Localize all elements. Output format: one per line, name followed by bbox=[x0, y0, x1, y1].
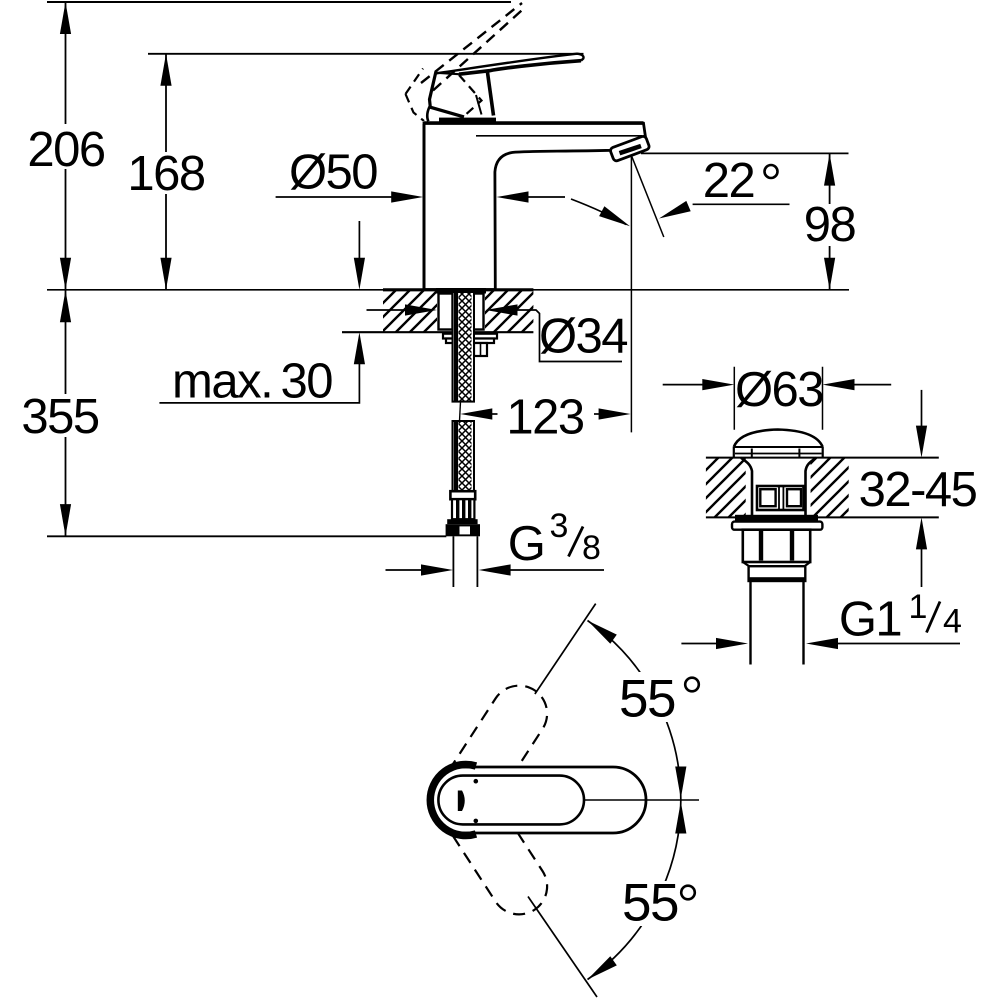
drain flange bbox=[732, 522, 822, 530]
dashed swivel position upper bbox=[423, 675, 558, 841]
dimension 206 line bbox=[65, 2, 67, 290]
top reference line 206 bbox=[47, 1, 511, 3]
aerator cap bbox=[610, 135, 650, 161]
faucet top edge thick bbox=[424, 121, 644, 125]
55deg leader line upper bbox=[535, 604, 596, 694]
handle lever bottom edge bbox=[459, 61, 581, 74]
hose collar ring bbox=[447, 519, 477, 524]
svg-text:3: 3 bbox=[550, 507, 569, 545]
handle base bar bbox=[439, 118, 496, 122]
svg-text:G1: G1 bbox=[839, 593, 901, 647]
drain cap rim bbox=[734, 447, 823, 458]
top view handle crescent bbox=[430, 764, 476, 835]
drain body window bbox=[757, 486, 804, 510]
svg-text:32-45: 32-45 bbox=[859, 463, 977, 517]
spout chamfer line bbox=[476, 135, 642, 137]
drain counter hatch right bbox=[811, 458, 849, 516]
dimension 32-45 bbox=[921, 390, 923, 426]
55deg arc lower bbox=[588, 800, 681, 980]
dimension max.30 bottom arrow and leader bbox=[354, 332, 365, 364]
handle lever top edge bbox=[435, 54, 584, 74]
handle knob top seam bbox=[437, 73, 460, 74]
55deg arc upper bbox=[588, 621, 681, 801]
connection pipe bbox=[453, 536, 477, 587]
svg-text:max. 30: max. 30 bbox=[172, 355, 332, 409]
reference line 168 bbox=[148, 53, 584, 55]
aerator inner stripe bbox=[620, 146, 642, 153]
faucet left edge bbox=[423, 124, 426, 290]
top view centerline bbox=[584, 799, 699, 801]
dimension Ø50 bbox=[276, 196, 392, 198]
svg-text:206: 206 bbox=[27, 123, 105, 177]
dimension Ø63 witness lines bbox=[734, 367, 822, 430]
dimension G3/8 bbox=[386, 569, 423, 571]
svg-text:Ø34: Ø34 bbox=[539, 310, 627, 364]
drain union collar bbox=[749, 566, 806, 581]
svg-text:168: 168 bbox=[127, 147, 205, 201]
dimension Ø34 bbox=[367, 309, 407, 311]
hose ribbed section bbox=[452, 499, 474, 519]
dimension Ø63 bbox=[663, 384, 703, 386]
threaded stud with nut bbox=[474, 343, 487, 356]
counter hatch right of hole bbox=[485, 291, 533, 332]
svg-text:355: 355 bbox=[21, 390, 99, 444]
svg-text:4: 4 bbox=[943, 603, 962, 641]
handle neck right edge bbox=[488, 73, 494, 116]
G3/8 hex nut bbox=[446, 524, 480, 536]
shank interior dark bbox=[453, 294, 459, 332]
drain under-counter band bbox=[735, 515, 818, 522]
dimension 123 bbox=[492, 413, 498, 415]
top view outer lever outline bbox=[430, 767, 647, 833]
dimension G1 1/4 bbox=[681, 643, 717, 645]
faucet base plate bbox=[436, 288, 486, 294]
dashed swivel position lower bbox=[423, 759, 558, 925]
spout tip vertical line bbox=[630, 156, 632, 433]
bottom reference line 355 bbox=[47, 535, 446, 537]
svg-text:55: 55 bbox=[619, 670, 675, 729]
shank left wall bbox=[439, 294, 453, 330]
dimension 22deg leader bbox=[693, 203, 790, 205]
drain tail pipe bbox=[751, 581, 804, 665]
dimension max.30 top arrow bbox=[358, 221, 360, 259]
55deg leader line lower bbox=[528, 897, 597, 998]
swivel arc arrow bbox=[571, 199, 626, 225]
drain hex nut bbox=[743, 530, 810, 562]
svg-text:Ø63: Ø63 bbox=[735, 363, 823, 417]
counter top reference line bbox=[47, 289, 849, 291]
mounting nut bbox=[446, 339, 494, 344]
supply hose lower segment bbox=[453, 421, 475, 491]
counter bottom line bbox=[342, 331, 533, 333]
svg-text:22: 22 bbox=[703, 154, 755, 208]
handle neck left line bbox=[476, 95, 482, 115]
drain counter bottom line bbox=[706, 516, 939, 518]
hose break symbol bbox=[460, 402, 461, 421]
svg-text:8: 8 bbox=[582, 529, 601, 567]
dashed raised knob outline bbox=[406, 69, 482, 122]
drain cap dome bbox=[734, 430, 823, 448]
svg-text:1: 1 bbox=[909, 588, 928, 626]
svg-text:55: 55 bbox=[622, 874, 678, 933]
top view dots bbox=[474, 779, 479, 784]
22 deg slanted line bbox=[631, 156, 663, 238]
faucet body outline bbox=[424, 123, 646, 289]
mounting washer bbox=[443, 334, 497, 339]
handle knob outline bbox=[430, 71, 465, 117]
handle knob curl bbox=[427, 105, 430, 121]
drain counter top line bbox=[706, 457, 939, 459]
shank right wall bbox=[473, 294, 484, 330]
svg-text:98: 98 bbox=[804, 198, 856, 252]
top view inner lever outline bbox=[438, 776, 584, 825]
dashed raised lever line 1 bbox=[421, 3, 522, 83]
drain counter hatch left bbox=[706, 458, 746, 516]
counter hatch left of hole bbox=[383, 291, 437, 332]
svg-text:Ø50: Ø50 bbox=[289, 145, 377, 199]
svg-text:G: G bbox=[508, 517, 545, 571]
svg-text:123: 123 bbox=[506, 391, 584, 445]
dimension 355 line bbox=[65, 290, 67, 536]
98 top reference line bbox=[641, 152, 849, 154]
counter top thick segment bbox=[383, 288, 533, 291]
supply hose upper segment bbox=[453, 292, 475, 402]
top view logo mark bbox=[458, 791, 465, 812]
dimension 98 line bbox=[829, 154, 831, 290]
dashed raised lever line 2 bbox=[433, 7, 526, 91]
drain body neck flare bbox=[741, 458, 752, 518]
hose crimp collar bbox=[450, 491, 475, 499]
dimension 168 line bbox=[165, 54, 167, 290]
